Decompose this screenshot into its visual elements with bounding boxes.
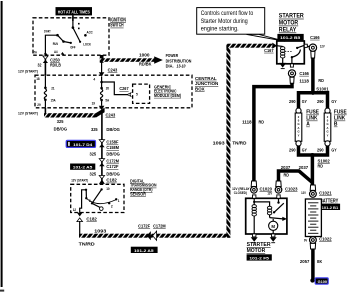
- svg-text:OFF: OFF: [70, 46, 76, 50]
- svg-text:4: 4: [93, 77, 95, 81]
- svg-text:21: 21: [51, 86, 55, 90]
- wire start contact to STA terminal: [45, 35, 57, 54]
- starter hold winding: [254, 202, 272, 218]
- wire 1093 TN/RD horizontal: [79, 221, 81, 236]
- svg-text:5A: 5A: [105, 99, 109, 103]
- svg-text:G: G: [326, 130, 328, 134]
- svg-text:G: G: [297, 122, 299, 126]
- connector C250: [44, 55, 46, 75]
- svg-text:JUNCTION: JUNCTION: [195, 81, 219, 87]
- svg-text:STA: STA: [32, 50, 37, 54]
- svg-text:S1001: S1001: [316, 87, 329, 92]
- svg-text:1118: 1118: [299, 79, 309, 84]
- ignition switch S1 box: [33, 18, 109, 55]
- central junction box: [35, 75, 192, 108]
- svg-text:C167: C167: [264, 48, 274, 53]
- svg-text:C1021: C1021: [319, 190, 332, 195]
- svg-text:G: G: [297, 130, 299, 134]
- svg-text:A: A: [298, 126, 300, 130]
- link box 101-7 D4: [66, 140, 95, 147]
- svg-text:LOCK: LOCK: [83, 42, 91, 46]
- connector C1022: [310, 237, 317, 244]
- page corner mark: [0, 290, 4, 292]
- svg-text:12V (START): 12V (START): [18, 112, 38, 116]
- svg-text:C243: C243: [108, 67, 118, 72]
- connector C1020: [251, 181, 256, 187]
- connector C172F C172M inline: [147, 231, 151, 240]
- starter solenoid coil: [252, 198, 256, 234]
- svg-text:RD: RD: [318, 164, 324, 169]
- battery cells: [305, 199, 321, 237]
- svg-text:29: 29: [37, 103, 41, 107]
- svg-text:Y: Y: [327, 133, 329, 137]
- svg-text:DB/OG: DB/OG: [54, 126, 68, 131]
- svg-text:2037: 2037: [281, 165, 291, 170]
- svg-text:DB/OG: DB/OG: [106, 127, 120, 132]
- svg-text:12: 12: [73, 208, 77, 212]
- svg-text:MOTOR: MOTOR: [247, 248, 266, 254]
- relay K1 box: [277, 41, 305, 64]
- svg-text:DB/OG: DB/OG: [106, 152, 120, 157]
- svg-text:C182: C182: [106, 178, 117, 183]
- svg-text:13-10: 13-10: [177, 63, 186, 68]
- svg-text:2057: 2057: [300, 259, 310, 264]
- svg-text:290: 290: [317, 147, 324, 152]
- svg-text:engine starting.: engine starting.: [201, 25, 239, 32]
- wire 2037 RD to C1023: [279, 171, 313, 183]
- svg-text:CLOSED): CLOSED): [234, 191, 247, 195]
- svg-text:19: 19: [92, 101, 96, 105]
- DTR rotary switch: [80, 188, 118, 212]
- fuse link A: [295, 108, 302, 146]
- ignition switch rotary contacts: [56, 18, 86, 44]
- wire C166 to S1001: [311, 58, 315, 94]
- svg-text:101-2 A5: 101-2 A5: [73, 165, 93, 170]
- ground starter left: [253, 234, 256, 237]
- svg-text:5: 5: [136, 93, 138, 97]
- svg-text:GY: GY: [331, 147, 336, 152]
- svg-text:C158M: C158M: [106, 145, 119, 150]
- svg-text:B: B: [334, 122, 338, 128]
- connector C243 top: [99, 72, 105, 76]
- svg-text:18: 18: [36, 77, 40, 81]
- wire ignition feed: [72, 15, 74, 21]
- svg-text:START: START: [44, 29, 51, 33]
- svg-text:GY: GY: [331, 99, 336, 104]
- connector C158F C158M: [99, 140, 104, 143]
- DTR sensor box: [71, 184, 124, 212]
- starter solenoid switch: [270, 198, 287, 221]
- svg-text:290: 290: [289, 147, 296, 152]
- svg-text:325: 325: [57, 119, 64, 124]
- svg-text:10: 10: [106, 187, 110, 191]
- svg-text:CENTRAL: CENTRAL: [195, 76, 217, 82]
- svg-text:C166: C166: [310, 35, 320, 40]
- splice S1002: [310, 153, 314, 157]
- svg-text:1093: 1093: [213, 140, 226, 145]
- connector C167: [272, 43, 277, 49]
- svg-text:12V: 12V: [267, 192, 273, 196]
- svg-text:SWITCH: SWITCH: [110, 23, 124, 29]
- svg-text:A: A: [327, 126, 329, 130]
- svg-text:15A: 15A: [51, 98, 57, 102]
- svg-text:2037: 2037: [299, 165, 309, 170]
- svg-text:101-7 D4: 101-7 D4: [73, 142, 93, 147]
- svg-text:1: 1: [118, 199, 120, 203]
- svg-text:RELAY: RELAY: [279, 28, 297, 34]
- connector C172M C172F: [99, 159, 104, 162]
- svg-text:G: G: [326, 122, 328, 126]
- wire 1000 RD/BK power feed: [100, 58, 155, 62]
- wire 1093 TN/RD vertical: [226, 44, 230, 238]
- hot at all times label: [56, 7, 93, 15]
- ground relay coil: [279, 63, 286, 68]
- svg-text:C172F: C172F: [106, 164, 118, 169]
- svg-text:Y: Y: [298, 133, 300, 137]
- svg-text:HOT AT ALL TIMES: HOT AT ALL TIMES: [58, 9, 90, 14]
- svg-text:TN/RD: TN/RD: [79, 242, 96, 247]
- svg-text:Controls current flow to: Controls current flow to: [201, 10, 254, 17]
- svg-text:12V: 12V: [320, 44, 326, 48]
- svg-text:BK: BK: [317, 259, 323, 264]
- ground G100: [310, 278, 314, 282]
- svg-text:325: 325: [90, 171, 97, 176]
- svg-text:RD: RD: [259, 119, 265, 124]
- fuse F21 15A: [44, 75, 47, 108]
- connector C182 top: [99, 176, 104, 179]
- callout note: [197, 8, 285, 42]
- svg-text:290: 290: [289, 99, 296, 104]
- svg-text:101-2 B5: 101-2 B5: [280, 35, 301, 40]
- svg-text:M: M: [271, 224, 275, 229]
- svg-text:TN/RD: TN/RD: [232, 140, 247, 145]
- svg-text:C172F: C172F: [138, 224, 150, 229]
- fuse link B: [324, 108, 331, 146]
- svg-text:MODULE (GEM): MODULE (GEM): [154, 93, 182, 98]
- svg-text:RD/LB: RD/LB: [50, 62, 61, 67]
- svg-text:RD: RD: [318, 78, 324, 83]
- fuse F20 5A: [100, 77, 103, 106]
- svg-text:BOX: BOX: [195, 86, 205, 92]
- svg-text:325: 325: [90, 152, 97, 157]
- svg-text:290: 290: [317, 99, 324, 104]
- svg-text:101-2 F5: 101-2 F5: [249, 255, 269, 260]
- svg-text:GY: GY: [302, 147, 307, 152]
- svg-text:12V (START): 12V (START): [18, 70, 38, 74]
- svg-text:101-2 A5: 101-2 A5: [134, 248, 154, 253]
- svg-text:C172M: C172M: [106, 159, 119, 164]
- connector C243 bottom: [99, 106, 105, 110]
- svg-text:C172M: C172M: [153, 224, 166, 229]
- relay feed terminal: [304, 44, 307, 47]
- svg-text:1093: 1093: [94, 228, 107, 233]
- splice S1001: [311, 91, 315, 95]
- wire 1118 RD: [254, 83, 292, 182]
- svg-text:RUN: RUN: [53, 42, 58, 46]
- svg-text:12V (START): 12V (START): [71, 178, 88, 182]
- link box 101-2 A5: [70, 164, 95, 170]
- svg-text:20: 20: [106, 87, 110, 91]
- page left border line: [1, 1, 3, 287]
- wire S1002 to battery C1021: [311, 155, 315, 186]
- svg-text:C182: C182: [86, 216, 97, 221]
- svg-text:C158F: C158F: [106, 140, 118, 145]
- starter motor M: [269, 221, 278, 230]
- svg-text:A: A: [306, 122, 310, 128]
- svg-text:SENSOR: SENSOR: [130, 191, 146, 196]
- svg-text:DB/OG: DB/OG: [106, 171, 120, 176]
- connector C1021: [310, 185, 315, 190]
- GEM U2 box: [133, 84, 150, 103]
- svg-text:32: 32: [38, 62, 42, 67]
- link box 101-2 F5: [247, 254, 272, 260]
- link box 101-2 A5: [131, 247, 158, 253]
- svg-text:8: 8: [89, 199, 91, 203]
- svg-text:G100: G100: [318, 279, 328, 284]
- svg-text:C243: C243: [106, 112, 116, 117]
- connector C166 lower: [288, 70, 295, 77]
- terminal A4 stub: [61, 52, 65, 55]
- link box 101-2 B1: [320, 204, 340, 210]
- svg-text:DIA.: DIA.: [166, 63, 174, 68]
- svg-text:325: 325: [91, 127, 98, 132]
- svg-text:12V: 12V: [301, 191, 307, 195]
- wires fuse links to S1002: [299, 146, 313, 156]
- svg-text:C267: C267: [119, 86, 129, 91]
- svg-text:GY: GY: [302, 99, 307, 104]
- wire 1093 to relay C167: [226, 44, 272, 48]
- svg-text:C1023: C1023: [285, 186, 298, 191]
- svg-text:MOTOR: MOTOR: [279, 21, 299, 27]
- wire ignition to C243: [101, 62, 103, 73]
- svg-text:RD: RD: [284, 173, 290, 178]
- relay coil: [277, 46, 285, 63]
- svg-text:STARTER: STARTER: [279, 14, 305, 20]
- svg-text:101-2 B1: 101-2 B1: [322, 206, 339, 210]
- starter motor M1 box: [246, 198, 287, 234]
- svg-text:C166: C166: [299, 71, 309, 76]
- svg-text:ACC: ACC: [87, 31, 93, 35]
- relay mech link: [285, 50, 292, 52]
- svg-text:1118: 1118: [242, 119, 252, 124]
- wire 2057 BK: [311, 249, 315, 279]
- svg-text:1000: 1000: [139, 53, 150, 58]
- relay output terminal: [290, 64, 293, 67]
- svg-text:2: 2: [111, 204, 113, 208]
- wire 325 DB/OG vertical: [101, 110, 103, 185]
- wire ignition A4 output corner: [100, 55, 104, 63]
- connector C166 top: [309, 44, 316, 51]
- connector C1023: [276, 181, 281, 187]
- svg-text:A4: A4: [54, 50, 58, 54]
- relay switch: [291, 45, 304, 63]
- svg-text:C1022: C1022: [319, 237, 332, 242]
- link box 101-2 B5: [277, 34, 303, 41]
- wires S1001 to fuse links: [299, 93, 313, 109]
- wire to C267: [102, 82, 129, 95]
- ground starter right: [272, 234, 275, 237]
- svg-text:Starter Motor during: Starter Motor during: [201, 18, 248, 25]
- connector C182 bottom: [77, 213, 83, 217]
- svg-text:RD/BK: RD/BK: [139, 61, 152, 66]
- wire 325 DB/OG band: [44, 108, 46, 117]
